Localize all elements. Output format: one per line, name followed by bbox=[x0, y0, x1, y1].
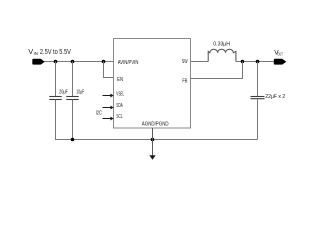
svg-text:10μF: 10μF bbox=[76, 89, 84, 95]
wire: C2 lower lead bbox=[72, 100, 74, 140]
wire: ground rail bbox=[55, 139, 258, 141]
wire: COUT upper lead bbox=[257, 62, 259, 97]
ground bbox=[149, 155, 155, 160]
wire: VSEL input arrow bbox=[103, 94, 114, 98]
wire: EN stub bbox=[104, 62, 114, 78]
wire: C1 upper lead bbox=[55, 62, 57, 97]
svg-text:AGND/PGND: AGND/PGND bbox=[142, 121, 169, 127]
wire: FB feedback bbox=[191, 62, 243, 79]
junction: rail / C1 bbox=[54, 60, 58, 64]
wire: VIN top rail bbox=[45, 61, 114, 63]
svg-text:EN: EN bbox=[117, 77, 123, 83]
svg-text:0.33μH: 0.33μH bbox=[213, 42, 230, 48]
wire: SDA input arrow bbox=[103, 106, 114, 110]
junction: rail / C2 bbox=[71, 60, 75, 64]
svg-text:SDA: SDA bbox=[116, 103, 123, 109]
inductor L1 bbox=[208, 49, 236, 61]
junction: rail / EN stub bbox=[102, 60, 106, 64]
junction: ground rail / AGND bbox=[151, 138, 155, 142]
svg-text:20μF: 20μF bbox=[59, 89, 68, 95]
wire: C1 lower lead bbox=[55, 100, 57, 140]
op-amp U1 (regulator IC body) bbox=[114, 39, 191, 129]
svg-text:FB: FB bbox=[182, 79, 187, 85]
label: VIN 2.5V to 5.5V bbox=[28, 47, 71, 56]
capacitor C2 plates bbox=[66, 97, 78, 100]
svg-text:SW: SW bbox=[182, 59, 188, 65]
svg-text:22μF x 2: 22μF x 2 bbox=[265, 94, 285, 100]
svg-text:2.5V to 5.5V: 2.5V to 5.5V bbox=[40, 47, 71, 56]
svg-text:I2C: I2C bbox=[96, 110, 102, 116]
wire: AGND/PGND lead bbox=[152, 128, 154, 156]
junction: L1 / FB tap bbox=[241, 60, 245, 64]
svg-text:VSEL: VSEL bbox=[116, 92, 124, 98]
wire: inductor to VOUT terminal bbox=[236, 61, 275, 63]
svg-text:IN: IN bbox=[34, 51, 38, 56]
wire: COUT lower lead bbox=[257, 99, 259, 139]
svg-text:SCL: SCL bbox=[116, 114, 123, 120]
capacitor C1 plates bbox=[49, 97, 61, 100]
junction: rail / COUT bbox=[256, 60, 260, 64]
wire: SW to inductor bbox=[191, 61, 209, 63]
junction: ground rail / C2 bbox=[71, 138, 75, 142]
wire: SCL input arrow bbox=[103, 117, 114, 121]
label: VOUT bbox=[274, 50, 283, 57]
input terminal VIN bbox=[32, 59, 44, 65]
output terminal VOUT bbox=[274, 59, 287, 65]
wire: C2 upper lead bbox=[72, 62, 74, 97]
svg-text:AVIN/PVIN: AVIN/PVIN bbox=[118, 60, 139, 66]
capacitor COUT plates bbox=[251, 97, 265, 99]
svg-text:OUT: OUT bbox=[277, 52, 283, 57]
